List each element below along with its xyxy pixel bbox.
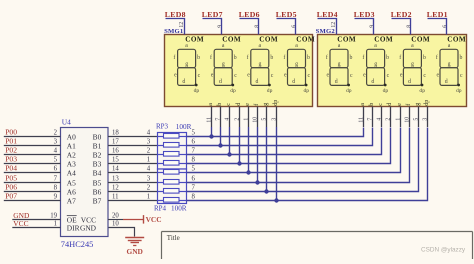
svg-text:DIR: DIR — [67, 223, 80, 232]
net label LED2 — [391, 10, 412, 19]
svg-text:c: c — [387, 73, 390, 79]
svg-text:9: 9 — [218, 25, 224, 28]
pin number 1 (RP3 left) — [147, 157, 150, 164]
svg-text:COM: COM — [447, 36, 466, 44]
svg-text:b: b — [307, 55, 310, 61]
resistor network RP4 body — [158, 169, 187, 204]
svg-text:1: 1 — [395, 118, 401, 121]
resistor element RP3.4-5 (100R) — [158, 134, 187, 139]
net label GND (left) — [13, 211, 30, 220]
net label LED3 — [354, 10, 375, 19]
svg-text:P02: P02 — [5, 146, 17, 155]
svg-text:1: 1 — [147, 194, 150, 201]
digit 3 of SMG2 (7-seg glyph) — [399, 43, 426, 94]
svg-text:b: b — [234, 55, 237, 61]
net label VCC (left) — [13, 219, 28, 228]
svg-text:d: d — [256, 79, 259, 85]
svg-text:17: 17 — [112, 138, 119, 145]
svg-text:B0: B0 — [93, 133, 102, 142]
svg-text:RP4: RP4 — [154, 204, 167, 212]
wire P01 to U4 pin A1 — [4, 145, 61, 147]
wire from net LED3 to COM pin of SMG2 digit 2 — [355, 19, 374, 35]
svg-text:6: 6 — [443, 25, 449, 28]
svg-text:dp: dp — [419, 88, 425, 94]
wire segment-f net: P05 row to displays — [187, 127, 410, 183]
svg-text:B5: B5 — [93, 179, 102, 188]
part value 74HC245 — [61, 240, 94, 249]
pin number 7 (U4 A5) — [54, 176, 58, 183]
pin number 8 (RP3 right) — [192, 156, 196, 163]
7-segment display module SMG1 body — [165, 35, 313, 107]
svg-text:8: 8 — [407, 25, 413, 28]
svg-text:11: 11 — [112, 193, 119, 200]
svg-text:COM: COM — [374, 36, 393, 44]
svg-text:18: 18 — [112, 129, 119, 136]
svg-text:P00: P00 — [5, 128, 17, 137]
svg-text:c: c — [234, 73, 237, 79]
svg-text:9: 9 — [370, 25, 376, 28]
svg-text:2: 2 — [234, 118, 240, 121]
svg-text:d: d — [335, 79, 338, 85]
svg-text:A4: A4 — [67, 169, 76, 178]
svg-text:A1: A1 — [67, 142, 76, 151]
svg-text:VCC: VCC — [146, 215, 162, 224]
U4 pin name B0 — [93, 133, 102, 142]
svg-text:c: c — [198, 73, 201, 79]
net label P07 — [5, 192, 17, 201]
svg-text:6: 6 — [192, 138, 196, 145]
pin number 4 (RP4 left) — [147, 166, 151, 173]
power port VCC (bar symbol) — [123, 215, 162, 224]
net label P04 — [5, 164, 17, 173]
svg-text:3: 3 — [147, 139, 151, 146]
svg-text:b: b — [386, 55, 389, 61]
wire U4 B4 to resistor network pin — [108, 172, 158, 174]
net label P01 — [5, 137, 17, 146]
wire U4 B7 to resistor network pin — [108, 200, 158, 202]
svg-text:7: 7 — [54, 176, 58, 183]
pin number 8 (U4 A6) — [54, 185, 58, 192]
svg-text:COM: COM — [337, 36, 356, 44]
pin number 6 (RP4 right) — [192, 175, 196, 182]
net label P02 — [5, 146, 17, 155]
svg-text:e: e — [211, 72, 214, 78]
svg-text:dp: dp — [273, 100, 279, 106]
U4 pin name A6 — [67, 188, 76, 197]
svg-text:9: 9 — [54, 194, 58, 201]
designator RP3 — [156, 122, 169, 130]
svg-text:U4: U4 — [62, 118, 71, 127]
U4 pin name B1 — [93, 142, 102, 151]
wire U4 pin 20 to VCC power port — [108, 219, 123, 221]
pin 5 (segment g) of SMG1 — [261, 103, 269, 127]
wire segment-e net: P04 row to displays — [187, 127, 401, 173]
pin number 3 (RP3 left) — [147, 139, 151, 146]
pin COM (digit 3) label — [259, 36, 278, 44]
svg-text:5: 5 — [192, 165, 196, 172]
svg-text:g: g — [295, 62, 298, 68]
svg-text:g: g — [448, 62, 451, 68]
resistor element RP4.2-7 (100R) — [158, 189, 187, 194]
pin 1 (segment e) of SMG1 — [243, 103, 251, 127]
pin 2 (segment d) of SMG2 — [385, 103, 393, 127]
junction: SMG1 segment d on row 4 — [237, 161, 241, 165]
svg-text:c: c — [271, 73, 274, 79]
wire segment-b net: P01 row to displays — [187, 127, 373, 146]
U4 pin name A5 — [67, 179, 76, 188]
svg-text:A6: A6 — [67, 188, 76, 197]
pin number 7 (RP3 right) — [192, 147, 196, 154]
svg-text:3: 3 — [54, 139, 58, 146]
pin 3 (segment dp) of SMG2 — [422, 100, 430, 127]
pin number 12 (U4 B6) — [112, 184, 119, 191]
pin 3 (segment dp) of SMG1 — [271, 100, 279, 127]
svg-text:c: c — [350, 73, 353, 79]
svg-text:a: a — [411, 43, 414, 49]
7-segment display module SMG2 body — [318, 35, 467, 107]
IC U4 74HC245 body — [61, 128, 109, 237]
wire from net LED7 to COM pin of SMG1 digit 2 — [203, 19, 222, 35]
digit 2 of SMG1 (7-seg glyph) — [210, 43, 237, 94]
svg-text:20: 20 — [112, 212, 119, 219]
junction: SMG1 segment dp on row 8 — [274, 198, 278, 202]
digit 4 of SMG2 (7-seg glyph) — [436, 43, 463, 94]
resistor element RP3.3-6 (100R) — [158, 143, 187, 148]
net label LED6 — [239, 10, 260, 19]
svg-text:4: 4 — [224, 118, 230, 121]
U4 pin name B2 — [93, 151, 102, 160]
svg-text:B3: B3 — [93, 160, 102, 169]
svg-text:f: f — [436, 54, 438, 61]
svg-text:f: f — [253, 104, 260, 106]
net label P05 — [5, 174, 17, 183]
svg-text:B6: B6 — [93, 188, 102, 197]
wire U4 B3 to resistor network pin — [108, 163, 158, 165]
svg-text:a: a — [448, 43, 451, 49]
net label P03 — [5, 155, 17, 164]
svg-text:b: b — [369, 103, 375, 106]
pin 10 (segment f) of SMG2 — [404, 104, 412, 127]
svg-text:f: f — [362, 54, 364, 61]
svg-text:A7: A7 — [67, 197, 76, 206]
svg-text:c: c — [308, 73, 311, 79]
svg-text:CSDN @ylazzy: CSDN @ylazzy — [421, 246, 466, 253]
svg-text:d: d — [292, 79, 295, 85]
svg-text:e: e — [174, 72, 177, 78]
pin number 9 (U4 A7) — [54, 194, 58, 201]
svg-text:4: 4 — [376, 118, 382, 121]
digit 2 of SMG2 (7-seg glyph) — [362, 43, 389, 94]
svg-text:dp: dp — [456, 88, 462, 94]
net label LED7 — [202, 10, 223, 19]
svg-text:2: 2 — [54, 130, 58, 137]
svg-text:f: f — [173, 54, 175, 61]
wire segment-g net: P06 row to displays — [187, 127, 419, 192]
svg-text:4: 4 — [147, 166, 151, 173]
svg-text:a: a — [185, 43, 188, 49]
svg-text:GND: GND — [80, 223, 97, 232]
svg-text:g: g — [258, 62, 261, 68]
digit 1 of SMG1 (7-seg glyph) — [173, 43, 200, 94]
pin number 5 (RP4 right) — [192, 165, 196, 172]
pin number 17 (U4 B1) — [112, 138, 119, 145]
svg-text:10: 10 — [252, 117, 258, 123]
resistor element RP3.1-8 (100R) — [158, 161, 187, 166]
svg-text:P01: P01 — [5, 137, 17, 146]
svg-text:d: d — [408, 79, 411, 85]
svg-text:P06: P06 — [5, 183, 17, 192]
pin number 9 for COM pin of SMG1 digit 2 — [218, 25, 224, 28]
svg-text:COM: COM — [259, 36, 278, 44]
pin number 2 (RP4 left) — [147, 185, 151, 192]
svg-text:4: 4 — [147, 130, 151, 137]
wire from net LED2 to COM pin of SMG2 digit 3 — [392, 19, 411, 35]
resistor network RP3 body — [158, 133, 187, 170]
wire P00 to U4 pin A0 — [4, 136, 61, 138]
wire segment-dp net: P07 row to displays — [187, 127, 428, 201]
svg-text:10: 10 — [112, 220, 119, 227]
svg-text:8: 8 — [54, 185, 58, 192]
pin number 6 (RP3 right) — [192, 138, 196, 145]
svg-text:P07: P07 — [5, 192, 17, 201]
svg-text:b: b — [217, 103, 223, 106]
U4 pin name B6 — [93, 188, 102, 197]
svg-text:f: f — [405, 104, 412, 106]
svg-text:d: d — [182, 79, 185, 85]
svg-text:P03: P03 — [5, 155, 17, 164]
svg-text:8: 8 — [255, 25, 261, 28]
svg-text:B7: B7 — [93, 197, 102, 206]
U4 pin name VCC — [81, 215, 96, 224]
pin number 1 (U4 DIR) — [54, 221, 57, 228]
svg-text:SMG1: SMG1 — [164, 28, 183, 35]
svg-text:d: d — [387, 103, 393, 106]
svg-text:2: 2 — [147, 148, 151, 155]
svg-text:b: b — [270, 55, 273, 61]
pin COM (digit 4) label — [296, 36, 315, 44]
digit 4 of SMG1 (7-seg glyph) — [283, 43, 310, 94]
svg-text:g: g — [222, 62, 225, 68]
svg-text:dp: dp — [304, 88, 310, 94]
wire U4 B1 to resistor network pin — [108, 145, 158, 147]
wire segment-d net: P03 row to displays — [187, 127, 391, 164]
svg-text:c: c — [226, 103, 232, 106]
svg-text:11: 11 — [358, 117, 364, 123]
svg-text:19: 19 — [50, 213, 57, 220]
pin COM (digit 1) label — [185, 36, 204, 44]
pin number 18 (U4 B0) — [112, 129, 119, 136]
svg-text:8: 8 — [192, 156, 196, 163]
junction: SMG1 segment f on row 6 — [255, 180, 259, 184]
U4 pin name A2 — [67, 151, 76, 160]
svg-text:e: e — [437, 72, 440, 78]
pin number 16 (U4 B2) — [112, 147, 119, 154]
pin number 6 (U4 A4) — [54, 166, 58, 173]
label SMG1 — [164, 28, 183, 35]
svg-text:e: e — [400, 72, 403, 78]
U4 pin name DIR — [67, 223, 80, 232]
svg-text:5: 5 — [192, 129, 196, 136]
U4 pin name GND — [80, 223, 97, 232]
pin number 4 (RP3 left) — [147, 130, 151, 137]
svg-text:8: 8 — [192, 193, 196, 200]
pin 7 (segment b) of SMG1 — [215, 103, 223, 127]
value 100R (RP3) — [176, 123, 192, 131]
resistor element RP4.3-6 (100R) — [158, 180, 187, 185]
svg-text:13: 13 — [112, 175, 119, 182]
designator U4 — [62, 118, 71, 127]
junction: SMG1 segment e on row 5 — [246, 170, 250, 174]
svg-text:100R: 100R — [176, 123, 192, 131]
net label P00 — [5, 128, 17, 137]
net label LED1 — [427, 10, 448, 19]
svg-text:1: 1 — [147, 157, 150, 164]
pin 4 (segment c) of SMG1 — [224, 103, 232, 127]
pin number 19 (U4 OE) — [50, 213, 57, 220]
net label LED5 — [276, 10, 297, 19]
pin number 15 (U4 B3) — [112, 156, 119, 163]
pin number 13 (U4 B5) — [112, 175, 119, 182]
pin number 3 (U4 A1) — [54, 139, 58, 146]
wire from net LED1 to COM pin of SMG2 digit 4 — [428, 19, 447, 35]
svg-text:b: b — [350, 55, 353, 61]
junction: SMG1 segment b on row 2 — [218, 143, 222, 147]
svg-text:3: 3 — [271, 118, 277, 121]
junction: SMG1 segment c on row 3 — [227, 152, 231, 156]
title block border — [162, 232, 473, 260]
svg-text:A3: A3 — [67, 160, 76, 169]
svg-text:dp: dp — [230, 88, 236, 94]
svg-text:g: g — [374, 62, 377, 68]
pin number 4 (U4 A2) — [54, 148, 58, 155]
svg-text:f: f — [247, 54, 249, 61]
svg-text:f: f — [283, 54, 285, 61]
U4 pin name A3 — [67, 160, 76, 169]
svg-text:7: 7 — [192, 184, 196, 191]
svg-text:7: 7 — [367, 118, 373, 121]
resistor element RP4.4-5 (100R) — [158, 170, 187, 175]
wire from net LED6 to COM pin of SMG1 digit 3 — [240, 19, 259, 35]
svg-text:dp: dp — [424, 100, 430, 106]
svg-text:a: a — [360, 103, 366, 106]
svg-text:GND: GND — [126, 247, 142, 256]
svg-text:c: c — [378, 103, 384, 106]
svg-text:P05: P05 — [5, 174, 17, 183]
wire segment-a net: P00 row to displays — [187, 127, 364, 137]
svg-text:a: a — [208, 103, 214, 106]
resistor element RP3.2-7 (100R) — [158, 152, 187, 157]
pin number 6 for COM pin of SMG2 digit 4 — [443, 25, 449, 28]
svg-text:A2: A2 — [67, 151, 76, 160]
pin number 12 for COM pin of SMG1 digit 1 — [179, 22, 185, 28]
svg-text:6: 6 — [192, 175, 196, 182]
svg-text:Title: Title — [167, 234, 180, 242]
svg-text:c: c — [460, 73, 463, 79]
pin COM (digit 2) label — [222, 36, 241, 44]
svg-text:P04: P04 — [5, 164, 17, 173]
wire U4 B6 to resistor network pin — [108, 191, 158, 193]
pin COM (digit 4) label — [447, 36, 466, 44]
svg-text:e: e — [363, 72, 366, 78]
svg-text:B1: B1 — [93, 142, 102, 151]
svg-text:COM: COM — [222, 36, 241, 44]
watermark CSDN @ylazzy — [421, 246, 466, 253]
U4 pin name B7 — [93, 197, 102, 206]
svg-text:a: a — [222, 43, 225, 49]
svg-text:3: 3 — [147, 176, 151, 183]
svg-text:g: g — [411, 62, 414, 68]
svg-text:6: 6 — [292, 25, 298, 28]
U4 pin name B5 — [93, 179, 102, 188]
svg-text:14: 14 — [112, 165, 119, 172]
net label P06 — [5, 183, 17, 192]
designator RP4 — [154, 204, 167, 212]
pin 10 (segment f) of SMG1 — [252, 104, 260, 127]
pin 11 (segment a) of SMG2 — [358, 103, 366, 127]
junction: SMG1 segment g on row 7 — [264, 189, 268, 193]
U4 pin name A7 — [67, 197, 76, 206]
pin number 9 for COM pin of SMG2 digit 2 — [370, 25, 376, 28]
wire P06 to U4 pin A6 — [4, 191, 61, 193]
pin number 2 (RP3 left) — [147, 148, 151, 155]
svg-text:VCC: VCC — [13, 219, 28, 228]
pin number 10 (U4 GND) — [112, 220, 119, 227]
pin 2 (segment d) of SMG1 — [234, 103, 242, 127]
svg-text:f: f — [399, 54, 401, 61]
svg-text:dp: dp — [267, 88, 273, 94]
ground symbol GND — [125, 238, 144, 256]
svg-text:11: 11 — [206, 117, 212, 123]
wire from net LED8 to COM pin of SMG1 digit 1 — [166, 19, 185, 35]
junction: SMG1 segment a on row 1 — [209, 134, 213, 138]
wire U4 B0 to resistor network pin — [108, 136, 158, 138]
pin 5 (segment g) of SMG2 — [413, 103, 421, 127]
wire VCC to U4 pin 1 — [12, 227, 60, 229]
pin number 20 (U4 VCC) — [112, 212, 119, 219]
svg-text:d: d — [371, 79, 374, 85]
svg-text:1: 1 — [243, 118, 249, 121]
svg-text:a: a — [259, 43, 262, 49]
svg-text:e: e — [397, 103, 403, 106]
svg-text:e: e — [247, 72, 250, 78]
svg-text:6: 6 — [54, 166, 58, 173]
pin number 8 for COM pin of SMG2 digit 3 — [407, 25, 413, 28]
net label LED4 — [317, 10, 338, 19]
pin number 8 for COM pin of SMG1 digit 3 — [255, 25, 261, 28]
digit 3 of SMG1 (7-seg glyph) — [247, 43, 274, 94]
pin number 6 for COM pin of SMG1 digit 4 — [292, 25, 298, 28]
svg-text:2: 2 — [385, 118, 391, 121]
svg-text:16: 16 — [112, 147, 119, 154]
label SMG2 — [316, 28, 336, 35]
svg-text:5: 5 — [413, 118, 419, 121]
svg-text:B2: B2 — [93, 151, 102, 160]
wire from net LED4 to COM pin of SMG2 digit 1 — [318, 19, 337, 35]
U4 pin name A0 — [67, 133, 76, 142]
wire segment-c net: P02 row to displays — [187, 127, 382, 155]
title block label "Title" — [167, 234, 180, 242]
svg-text:e: e — [327, 72, 330, 78]
svg-text:a: a — [338, 43, 341, 49]
wire U4 B5 to resistor network pin — [108, 182, 158, 184]
svg-text:SMG2: SMG2 — [316, 28, 336, 35]
svg-text:dp: dp — [383, 88, 389, 94]
svg-text:A5: A5 — [67, 179, 76, 188]
svg-text:a: a — [374, 43, 377, 49]
U4 pin name B3 — [93, 160, 102, 169]
svg-text:dp: dp — [194, 88, 200, 94]
svg-text:a: a — [295, 43, 298, 49]
